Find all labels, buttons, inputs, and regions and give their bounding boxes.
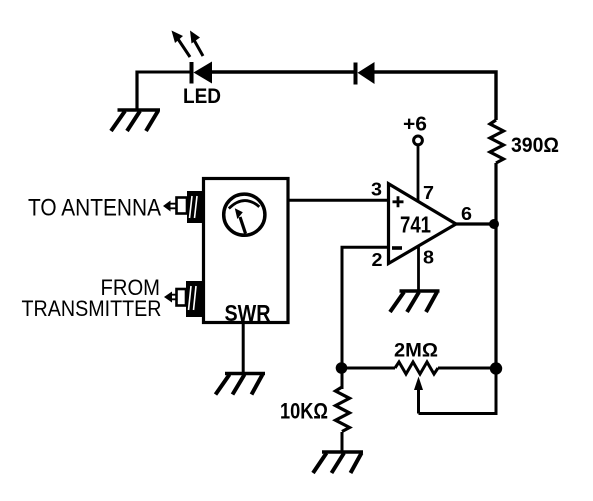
wire op-amp output pin 6 (455, 222, 497, 225)
ground G1 (111, 110, 160, 131)
svg-text:2: 2 (372, 250, 383, 270)
wire vertical down to ground G1 (135, 71, 138, 111)
LED light arrow 1 (172, 31, 191, 58)
SWR meter box (204, 179, 289, 323)
minus symbol pin 2 (392, 246, 402, 250)
potentiometer R3 2M ohm body (395, 362, 438, 374)
svg-text:LED: LED (183, 85, 221, 108)
wire LED to diode (212, 70, 354, 73)
wire wiper loop to right junction (419, 369, 497, 414)
wire SWR box to op-amp pin 3 (288, 199, 389, 202)
svg-text:2MΩ: 2MΩ (394, 341, 438, 362)
LED light arrow 2 (190, 31, 203, 57)
ground G2 (390, 291, 440, 312)
svg-text:10KΩ: 10KΩ (280, 399, 328, 424)
wire op-amp pin 2 feedback (342, 247, 389, 368)
wire op-amp pin 8 to ground G2 (417, 247, 420, 292)
op-amp U1 741 triangle (389, 184, 457, 264)
wire +6 to op-amp pin 7 (417, 145, 420, 201)
pot wiper arrow (414, 377, 423, 414)
wire feedback node down to resistor R2 (341, 368, 344, 389)
ground G3 (216, 374, 266, 395)
svg-text:7: 7 (423, 183, 434, 203)
wire SWR box to ground G3 (242, 323, 245, 374)
resistor R2 10K ohm (336, 387, 350, 432)
meter needle (235, 208, 246, 233)
svg-text:741: 741 (400, 212, 431, 238)
wire resistor R2 to ground G4 (341, 432, 344, 452)
resistor R1 390 ohm (490, 120, 504, 163)
wire feedback node to pot left (342, 367, 396, 370)
svg-text:TO ANTENNA: TO ANTENNA (28, 195, 161, 222)
meter face M1 (224, 194, 265, 235)
junction dot feedback node (336, 362, 348, 374)
LED D1 (190, 62, 213, 84)
wire resistor to output junction and down to pot junction (494, 163, 497, 369)
svg-text:+6: +6 (403, 114, 427, 136)
svg-text:TRANSMITTER: TRANSMITTER (22, 296, 162, 321)
wire diode to top-right corner and down (374, 72, 496, 120)
plus symbol pin 3 (393, 196, 404, 207)
wire top left horizontal to LED (137, 71, 191, 74)
supply terminal +6 (414, 136, 423, 145)
connector J1 to antenna (163, 191, 203, 223)
svg-text:390Ω: 390Ω (511, 134, 559, 157)
diode D2 (354, 62, 375, 85)
junction dot pot right node (490, 362, 502, 374)
svg-text:6: 6 (461, 204, 472, 224)
wire pot right to right junction (438, 367, 496, 370)
svg-text:3: 3 (371, 180, 382, 200)
ground G4 (313, 452, 363, 473)
svg-text:SWR: SWR (225, 300, 271, 326)
svg-text:8: 8 (423, 248, 434, 268)
junction dot output node (489, 219, 499, 229)
connector J2 from transmitter (164, 281, 202, 317)
